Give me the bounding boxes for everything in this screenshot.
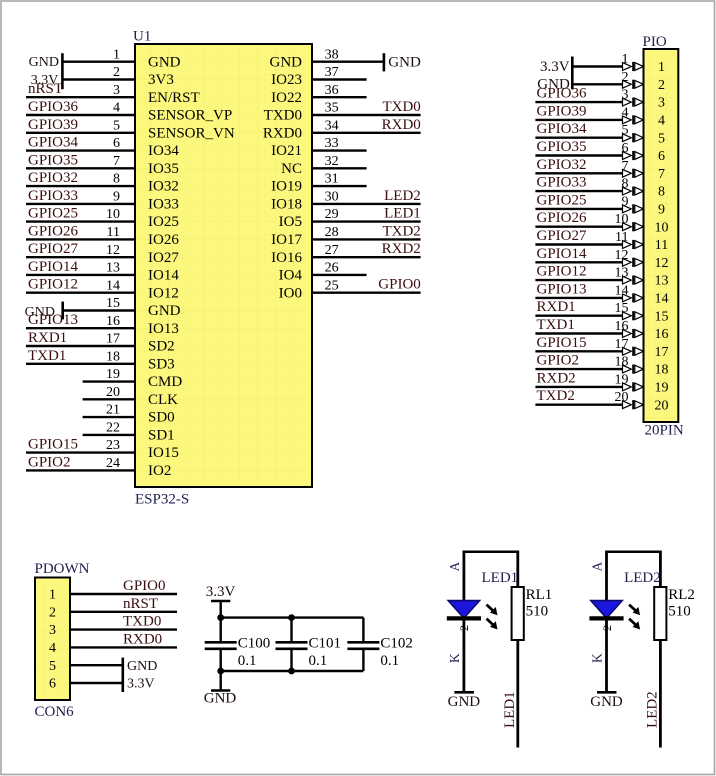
svg-text:IO22: IO22	[271, 90, 302, 106]
svg-text:GND: GND	[127, 659, 157, 674]
PDOWN pin 2 wire	[70, 611, 177, 613]
svg-text:6: 6	[49, 677, 56, 692]
svg-text:17: 17	[106, 332, 120, 347]
svg-text:GPIO2: GPIO2	[537, 353, 580, 369]
svg-text:8: 8	[658, 185, 665, 200]
svg-text:LED1: LED1	[384, 206, 421, 222]
svg-text:GPIO25: GPIO25	[28, 206, 78, 222]
svg-text:10: 10	[106, 207, 120, 222]
PIO pin 17 wire (GPIO15)	[535, 350, 622, 352]
svg-text:IO26: IO26	[148, 232, 179, 248]
U1 pin 21 (SD0) wire	[83, 416, 135, 418]
svg-text:IO14: IO14	[148, 268, 179, 284]
svg-text:GPIO34: GPIO34	[537, 121, 588, 137]
bottom rail wire	[221, 670, 364, 672]
svg-text:C102: C102	[380, 635, 413, 651]
U1 pin 16 (IO13) wire	[26, 327, 135, 329]
top rail wire	[221, 616, 364, 618]
PIO pin 16 wire (TXD1)	[535, 332, 622, 334]
U1 pin 32 (NC) wire	[312, 167, 367, 169]
PDOWN pin 3 wire	[70, 628, 177, 630]
svg-text:20PIN: 20PIN	[645, 423, 684, 439]
svg-text:0.1: 0.1	[380, 653, 399, 669]
svg-text:21: 21	[106, 403, 120, 418]
PIO pin 5 symbol	[623, 134, 632, 142]
svg-text:GPIO25: GPIO25	[537, 192, 587, 208]
capacitor C100	[205, 618, 237, 671]
PIO pin 19 wire (RXD2)	[535, 386, 622, 388]
svg-text:16: 16	[615, 319, 629, 334]
svg-text:36: 36	[325, 83, 339, 98]
svg-text:3V3: 3V3	[148, 72, 174, 88]
svg-text:LED2: LED2	[645, 691, 661, 728]
power port bar at PDOWN pins 5-6	[122, 658, 125, 692]
svg-text:GND: GND	[270, 54, 303, 70]
svg-text:C100: C100	[238, 635, 271, 651]
svg-text:TXD0: TXD0	[382, 99, 420, 115]
LED1 top rail wire	[464, 550, 518, 553]
U1 pin 23 (IO15) wire	[26, 451, 135, 453]
svg-text:1: 1	[622, 52, 629, 67]
svg-text:7: 7	[622, 159, 629, 174]
svg-text:GPIO12: GPIO12	[28, 277, 78, 293]
LED D1 cathode bar	[447, 616, 481, 620]
PIO pin 17 symbol	[623, 347, 632, 355]
svg-text:IO17: IO17	[271, 232, 302, 248]
svg-text:10: 10	[655, 220, 669, 235]
svg-text:SD3: SD3	[148, 356, 175, 372]
svg-text:GPIO36: GPIO36	[28, 99, 79, 115]
svg-text:GPIO32: GPIO32	[537, 157, 587, 173]
svg-text:4: 4	[658, 114, 665, 129]
svg-text:3.3V: 3.3V	[540, 59, 570, 75]
svg-text:510: 510	[668, 604, 691, 620]
svg-text:4: 4	[49, 641, 56, 656]
PIO pin 18 symbol	[623, 365, 632, 373]
U1 pin 15 (GND) wire	[63, 309, 135, 311]
svg-text:22: 22	[106, 421, 120, 436]
svg-text:12: 12	[655, 256, 669, 271]
svg-text:RL1: RL1	[526, 587, 553, 603]
U1 pin 20 (CLK) wire	[83, 398, 135, 400]
svg-text:IO0: IO0	[279, 285, 302, 301]
PIO pin 11 symbol	[623, 241, 632, 249]
power port bar at PIO pins 1-2	[571, 57, 574, 90]
svg-text:IO35: IO35	[148, 161, 179, 177]
power port GND at U1 pin 38 (bar)	[383, 53, 386, 71]
svg-text:A: A	[447, 562, 462, 572]
svg-text:RXD0: RXD0	[263, 125, 302, 141]
svg-text:CLK: CLK	[148, 392, 178, 408]
svg-text:GPIO27: GPIO27	[28, 241, 79, 257]
svg-text:2: 2	[49, 605, 56, 620]
PDOWN pin 1 wire	[70, 593, 177, 595]
svg-text:0.1: 0.1	[238, 653, 257, 669]
svg-text:3: 3	[622, 88, 629, 103]
svg-text:14: 14	[615, 283, 629, 298]
U1 pin 29 (IO5) wire	[312, 220, 421, 222]
U1 pin 27 (IO16) wire	[312, 256, 421, 258]
U1 pin 13 (IO14) wire	[26, 274, 135, 276]
svg-text:GPIO15: GPIO15	[28, 437, 78, 453]
svg-text:nRST: nRST	[123, 596, 158, 612]
svg-text:GPIO0: GPIO0	[378, 277, 421, 293]
LED2 top rail wire	[607, 550, 661, 553]
svg-text:GPIO14: GPIO14	[537, 246, 588, 262]
svg-text:IO2: IO2	[148, 463, 171, 479]
svg-text:3.3V: 3.3V	[206, 584, 236, 600]
power port 3.3V bar	[211, 600, 230, 603]
svg-text:GND: GND	[204, 691, 237, 707]
U1 pin 9 (IO33) wire	[26, 203, 135, 205]
svg-text:20: 20	[106, 385, 120, 400]
power port GND below D1 bar	[454, 691, 474, 694]
PIO pin 2 symbol	[623, 80, 632, 88]
svg-text:GND: GND	[448, 694, 481, 710]
PIO pin 20 wire (TXD2)	[535, 404, 622, 406]
svg-text:RXD0: RXD0	[382, 117, 421, 133]
svg-text:3.3V: 3.3V	[31, 73, 59, 88]
PIO pin 11 wire (GPIO27)	[535, 243, 622, 245]
PDOWN pin 6 wire	[70, 682, 123, 684]
svg-text:14: 14	[655, 292, 669, 307]
U1 pin 31 (IO19) wire	[312, 185, 367, 187]
svg-text:13: 13	[106, 261, 120, 276]
U1 pin 22 (SD1) wire	[83, 434, 135, 436]
svg-text:37: 37	[325, 65, 339, 80]
svg-text:510: 510	[526, 604, 549, 620]
svg-text:TXD0: TXD0	[264, 108, 302, 124]
power port GND at U1 pin 1 (bar)	[61, 53, 64, 89]
U1 pin 25 (IO0) wire	[312, 292, 421, 294]
svg-text:20: 20	[655, 398, 669, 413]
svg-text:17: 17	[615, 337, 629, 352]
svg-text:RXD1: RXD1	[537, 299, 576, 315]
svg-text:GPIO32: GPIO32	[28, 170, 78, 186]
U1 pin 8 (IO32) wire	[26, 185, 135, 187]
svg-text:9: 9	[658, 203, 665, 218]
svg-text:3: 3	[49, 623, 56, 638]
svg-text:3: 3	[658, 96, 665, 111]
svg-text:7: 7	[658, 167, 665, 182]
svg-text:9: 9	[113, 190, 120, 205]
power port GND at U1 pin 15 (bar)	[61, 302, 64, 320]
LED diode D2 triangle	[591, 601, 622, 619]
svg-text:K: K	[589, 653, 604, 663]
svg-text:4: 4	[622, 105, 629, 120]
svg-text:SD2: SD2	[148, 339, 175, 355]
U1 pin 4 (SENSOR_VP) wire	[26, 114, 135, 116]
svg-text:IO12: IO12	[148, 285, 179, 301]
wire RL2 to net LED2	[659, 640, 662, 748]
U1 pin 35 (TXD0) wire	[312, 114, 421, 116]
U1 pin 5 (SENSOR_VN) wire	[26, 132, 135, 134]
LED D1 emission arrow 2	[487, 619, 498, 630]
svg-text:6: 6	[113, 136, 120, 151]
PIO pin 4 wire (GPIO39)	[535, 119, 622, 121]
svg-text:K: K	[447, 653, 462, 663]
svg-text:18: 18	[655, 363, 669, 378]
U1 pin 11 (IO26) wire	[26, 238, 135, 240]
svg-text:5: 5	[49, 659, 56, 674]
PIO pin 7 symbol	[623, 169, 632, 177]
svg-text:LED1: LED1	[502, 691, 518, 728]
LED D2 emission arrow 1	[629, 605, 640, 616]
PIO pin 19 symbol	[623, 383, 632, 391]
svg-text:GPIO15: GPIO15	[537, 335, 587, 351]
svg-text:RXD2: RXD2	[537, 370, 576, 386]
svg-text:A: A	[589, 562, 604, 572]
svg-text:18: 18	[106, 349, 120, 364]
svg-text:ESP32-S: ESP32-S	[135, 492, 189, 508]
svg-text:5: 5	[658, 131, 665, 146]
svg-text:GPIO36: GPIO36	[537, 86, 588, 102]
svg-text:IO27: IO27	[148, 250, 179, 266]
svg-text:1: 1	[658, 60, 665, 75]
svg-text:33: 33	[325, 136, 339, 151]
svg-text:GND: GND	[29, 55, 59, 70]
svg-text:5: 5	[113, 118, 120, 133]
PIO pin 2 wire (GND)	[572, 83, 622, 85]
wire cathode to GND LED1	[462, 618, 465, 692]
PIO pin 6 wire (GPIO35)	[535, 154, 622, 156]
svg-text:13: 13	[615, 266, 629, 281]
svg-text:IO15: IO15	[148, 445, 179, 461]
svg-text:SENSOR_VN: SENSOR_VN	[148, 125, 235, 141]
svg-text:4: 4	[113, 101, 120, 116]
svg-text:IO23: IO23	[271, 72, 302, 88]
svg-text:GPIO26: GPIO26	[28, 223, 79, 239]
svg-text:GPIO39: GPIO39	[537, 103, 587, 119]
svg-text:GPIO2: GPIO2	[28, 454, 71, 470]
svg-text:16: 16	[655, 327, 669, 342]
svg-text:TXD1: TXD1	[28, 348, 66, 364]
U1 pin 33 (IO21) wire	[312, 149, 367, 151]
svg-text:17: 17	[655, 345, 669, 360]
svg-text:6: 6	[622, 141, 629, 156]
PIO pin 14 wire (GPIO13)	[535, 297, 622, 299]
PIO pin 12 wire (GPIO14)	[535, 261, 622, 263]
LED D2 emission arrow 2	[629, 619, 640, 630]
svg-text:GPIO39: GPIO39	[28, 117, 78, 133]
U1 pin 3 (EN/RST) wire	[26, 96, 135, 98]
PIO pin 13 symbol	[623, 276, 632, 284]
PIO pin 16 symbol	[623, 330, 632, 338]
PIO pin 3 symbol	[623, 98, 632, 106]
svg-text:TXD2: TXD2	[537, 388, 575, 404]
U1 pin 34 (RXD0) wire	[312, 132, 421, 134]
svg-text:TXD0: TXD0	[123, 614, 161, 630]
PDOWN pin 5 wire	[70, 664, 123, 666]
svg-text:IO32: IO32	[148, 179, 179, 195]
svg-text:TXD2: TXD2	[382, 223, 420, 239]
U1 pin 18 (SD3) wire	[26, 363, 135, 365]
resistor RL2	[654, 587, 666, 640]
wire bottom rail to GND	[219, 671, 221, 691]
power port GND below D2 bar	[597, 691, 617, 694]
wire 3.3V to top rail	[219, 601, 221, 618]
PIO pin 8 symbol	[623, 187, 632, 195]
svg-text:3.3V: 3.3V	[127, 676, 155, 691]
svg-text:19: 19	[615, 372, 629, 387]
svg-text:19: 19	[655, 381, 669, 396]
svg-text:GPIO12: GPIO12	[537, 264, 587, 280]
U1 pin 38 (GND) wire	[312, 61, 384, 63]
svg-text:PIO: PIO	[643, 34, 667, 50]
PIO pin 9 symbol	[623, 205, 632, 213]
svg-text:RXD0: RXD0	[123, 631, 162, 647]
svg-text:14: 14	[106, 278, 120, 293]
svg-text:31: 31	[325, 172, 339, 187]
U1 pin 30 (IO18) wire	[312, 203, 421, 205]
svg-text:EN/RST: EN/RST	[148, 90, 200, 106]
U1 pin 6 (IO34) wire	[26, 149, 135, 151]
LED D2 cathode bar	[589, 616, 623, 620]
svg-text:GPIO33: GPIO33	[28, 188, 78, 204]
U1 pin 24 (IO2) wire	[26, 469, 135, 471]
junction at C101 top	[288, 614, 295, 621]
PIO pin 7 wire (GPIO32)	[535, 172, 622, 174]
svg-text:C101: C101	[309, 635, 342, 651]
svg-text:3: 3	[113, 83, 120, 98]
junction at C100 top	[217, 614, 224, 621]
svg-text:LED1: LED1	[482, 570, 519, 586]
svg-text:RL2: RL2	[668, 587, 695, 603]
svg-text:28: 28	[325, 225, 339, 240]
PIO pin 8 wire (GPIO33)	[535, 190, 622, 192]
svg-text:IO21: IO21	[271, 143, 302, 159]
svg-text:LED2: LED2	[384, 188, 421, 204]
wire anode drop LED1	[462, 551, 465, 602]
connector PDOWN (CON6) body	[35, 578, 70, 701]
svg-text:TXD1: TXD1	[537, 317, 575, 333]
svg-text:29: 29	[325, 207, 339, 222]
PIO pin 9 wire (GPIO25)	[535, 208, 622, 210]
PIO pin 20 symbol	[623, 401, 632, 409]
svg-text:34: 34	[325, 118, 339, 133]
capacitor C101	[276, 618, 308, 671]
PIO pin 12 symbol	[623, 258, 632, 266]
svg-text:27: 27	[325, 243, 339, 258]
svg-text:20: 20	[615, 390, 629, 405]
svg-text:15: 15	[106, 296, 120, 311]
svg-text:13: 13	[655, 274, 669, 289]
junction at C100 bottom	[217, 668, 224, 675]
svg-text:GND: GND	[25, 305, 55, 320]
svg-text:IO4: IO4	[279, 268, 303, 284]
svg-text:26: 26	[325, 261, 339, 276]
svg-text:15: 15	[655, 309, 669, 324]
PIO pin 18 wire (GPIO2)	[535, 368, 622, 370]
IC U1 ESP32-S body	[135, 44, 312, 487]
svg-text:LED2: LED2	[624, 570, 661, 586]
svg-text:2: 2	[113, 65, 120, 80]
svg-text:2: 2	[622, 70, 629, 85]
svg-text:24: 24	[106, 456, 120, 471]
U1 pin 10 (IO25) wire	[26, 220, 135, 222]
svg-text:11: 11	[615, 230, 628, 245]
svg-text:CMD: CMD	[148, 374, 182, 390]
svg-text:GPIO35: GPIO35	[28, 152, 78, 168]
svg-text:2: 2	[658, 78, 665, 93]
svg-text:GPIO26: GPIO26	[537, 210, 588, 226]
svg-text:11: 11	[107, 225, 120, 240]
svg-text:IO33: IO33	[148, 197, 179, 213]
svg-text:RXD1: RXD1	[28, 330, 67, 346]
svg-text:12: 12	[106, 243, 120, 258]
junction at C101 bottom	[288, 668, 295, 675]
svg-text:RXD2: RXD2	[382, 241, 421, 257]
U1 pin 26 (IO4) wire	[312, 274, 367, 276]
wire cathode to GND LED2	[605, 618, 608, 692]
svg-text:GPIO27: GPIO27	[537, 228, 588, 244]
svg-text:IO25: IO25	[148, 214, 179, 230]
svg-text:CON6: CON6	[35, 704, 75, 720]
svg-text:GPIO13: GPIO13	[537, 281, 587, 297]
svg-text:SD1: SD1	[148, 428, 175, 444]
svg-text:10: 10	[615, 212, 629, 227]
U1 pin 12 (IO27) wire	[26, 256, 135, 258]
svg-text:GPIO33: GPIO33	[537, 175, 587, 191]
U1 pin 28 (IO17) wire	[312, 238, 421, 240]
svg-text:IO13: IO13	[148, 321, 179, 337]
PIO pin 10 wire (GPIO26)	[535, 225, 622, 227]
svg-text:35: 35	[325, 101, 339, 116]
svg-text:GPIO34: GPIO34	[28, 135, 79, 151]
PIO pin 15 wire (RXD1)	[535, 315, 622, 317]
PIO pin 1 wire (3.3V)	[572, 65, 622, 67]
U1 pin 14 (IO12) wire	[26, 292, 135, 294]
svg-text:IO34: IO34	[148, 143, 179, 159]
U1 pin 7 (IO35) wire	[26, 167, 135, 169]
svg-text:23: 23	[106, 438, 120, 453]
svg-text:15: 15	[615, 301, 629, 316]
svg-text:12: 12	[615, 248, 629, 263]
svg-text:GPIO35: GPIO35	[537, 139, 587, 155]
svg-text:8: 8	[113, 172, 120, 187]
svg-text:GND: GND	[148, 303, 181, 319]
U1 pin 17 (SD2) wire	[26, 345, 135, 347]
svg-text:GND: GND	[388, 54, 421, 70]
U1 pin 1 (GND) wire	[62, 61, 135, 63]
svg-text:9: 9	[622, 194, 629, 209]
PIO pin 3 wire (GPIO36)	[535, 101, 622, 103]
PIO pin 5 wire (GPIO34)	[535, 136, 622, 138]
svg-text:IO5: IO5	[279, 214, 302, 230]
PIO pin 4 symbol	[623, 116, 632, 124]
U1 pin 2 (3V3) wire	[62, 78, 135, 80]
svg-text:GND: GND	[590, 694, 623, 710]
PIO pin 13 wire (GPIO12)	[535, 279, 622, 281]
svg-text:IO16: IO16	[271, 250, 302, 266]
svg-text:1: 1	[113, 47, 120, 62]
PIO pin 10 symbol	[623, 223, 632, 231]
svg-text:6: 6	[658, 149, 665, 164]
U1 pin 36 (IO22) wire	[312, 96, 367, 98]
PIO pin 1 symbol	[623, 63, 632, 71]
resistor RL1	[512, 587, 524, 640]
svg-text:GND: GND	[148, 54, 181, 70]
svg-text:19: 19	[106, 367, 120, 382]
svg-text:GPIO14: GPIO14	[28, 259, 79, 275]
svg-text:25: 25	[325, 278, 339, 293]
svg-text:PDOWN: PDOWN	[35, 561, 90, 577]
wire RL1 to net LED1	[516, 640, 519, 748]
svg-text:IO19: IO19	[271, 179, 302, 195]
wire rail to RL1	[516, 551, 519, 588]
PIO pin 15 symbol	[623, 312, 632, 320]
LED D1 emission arrow 1	[487, 605, 498, 616]
